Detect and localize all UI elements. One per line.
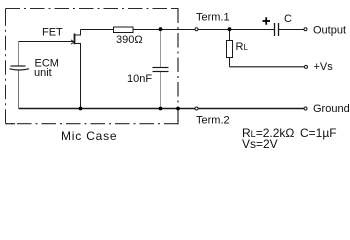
svg-text:FET: FET	[42, 27, 63, 39]
svg-text:C=1µF: C=1µF	[300, 126, 337, 140]
svg-text:+Vs: +Vs	[314, 61, 334, 73]
svg-text:RL: RL	[236, 41, 249, 53]
svg-text:Vs=2V: Vs=2V	[242, 137, 278, 151]
svg-text:Term.1: Term.1	[196, 12, 230, 24]
svg-text:C: C	[284, 13, 292, 25]
svg-text:10nF: 10nF	[127, 73, 152, 85]
svg-text:unit: unit	[34, 67, 52, 79]
svg-text:Output: Output	[313, 25, 346, 37]
svg-text:Mic Case: Mic Case	[61, 129, 117, 143]
svg-text:Term.2: Term.2	[196, 115, 230, 127]
svg-text:Ground: Ground	[313, 103, 350, 115]
svg-text:390Ω: 390Ω	[116, 34, 143, 46]
